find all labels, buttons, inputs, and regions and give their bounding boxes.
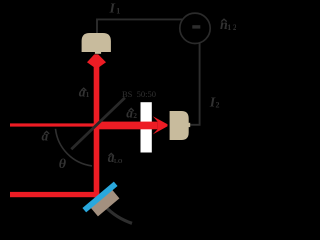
svg-text:a: a — [42, 128, 49, 143]
svg-text:1: 1 — [86, 90, 90, 99]
svg-text:2: 2 — [133, 111, 137, 120]
svg-text:1: 1 — [116, 6, 120, 15]
svg-text:1 2: 1 2 — [227, 23, 236, 32]
svg-text:2: 2 — [216, 101, 220, 110]
svg-text:I: I — [109, 2, 116, 17]
svg-text:θ: θ — [59, 157, 67, 172]
svg-text:a: a — [126, 106, 133, 121]
svg-text:BS 50:50: BS 50:50 — [122, 89, 156, 99]
svg-text:LO: LO — [114, 159, 123, 165]
